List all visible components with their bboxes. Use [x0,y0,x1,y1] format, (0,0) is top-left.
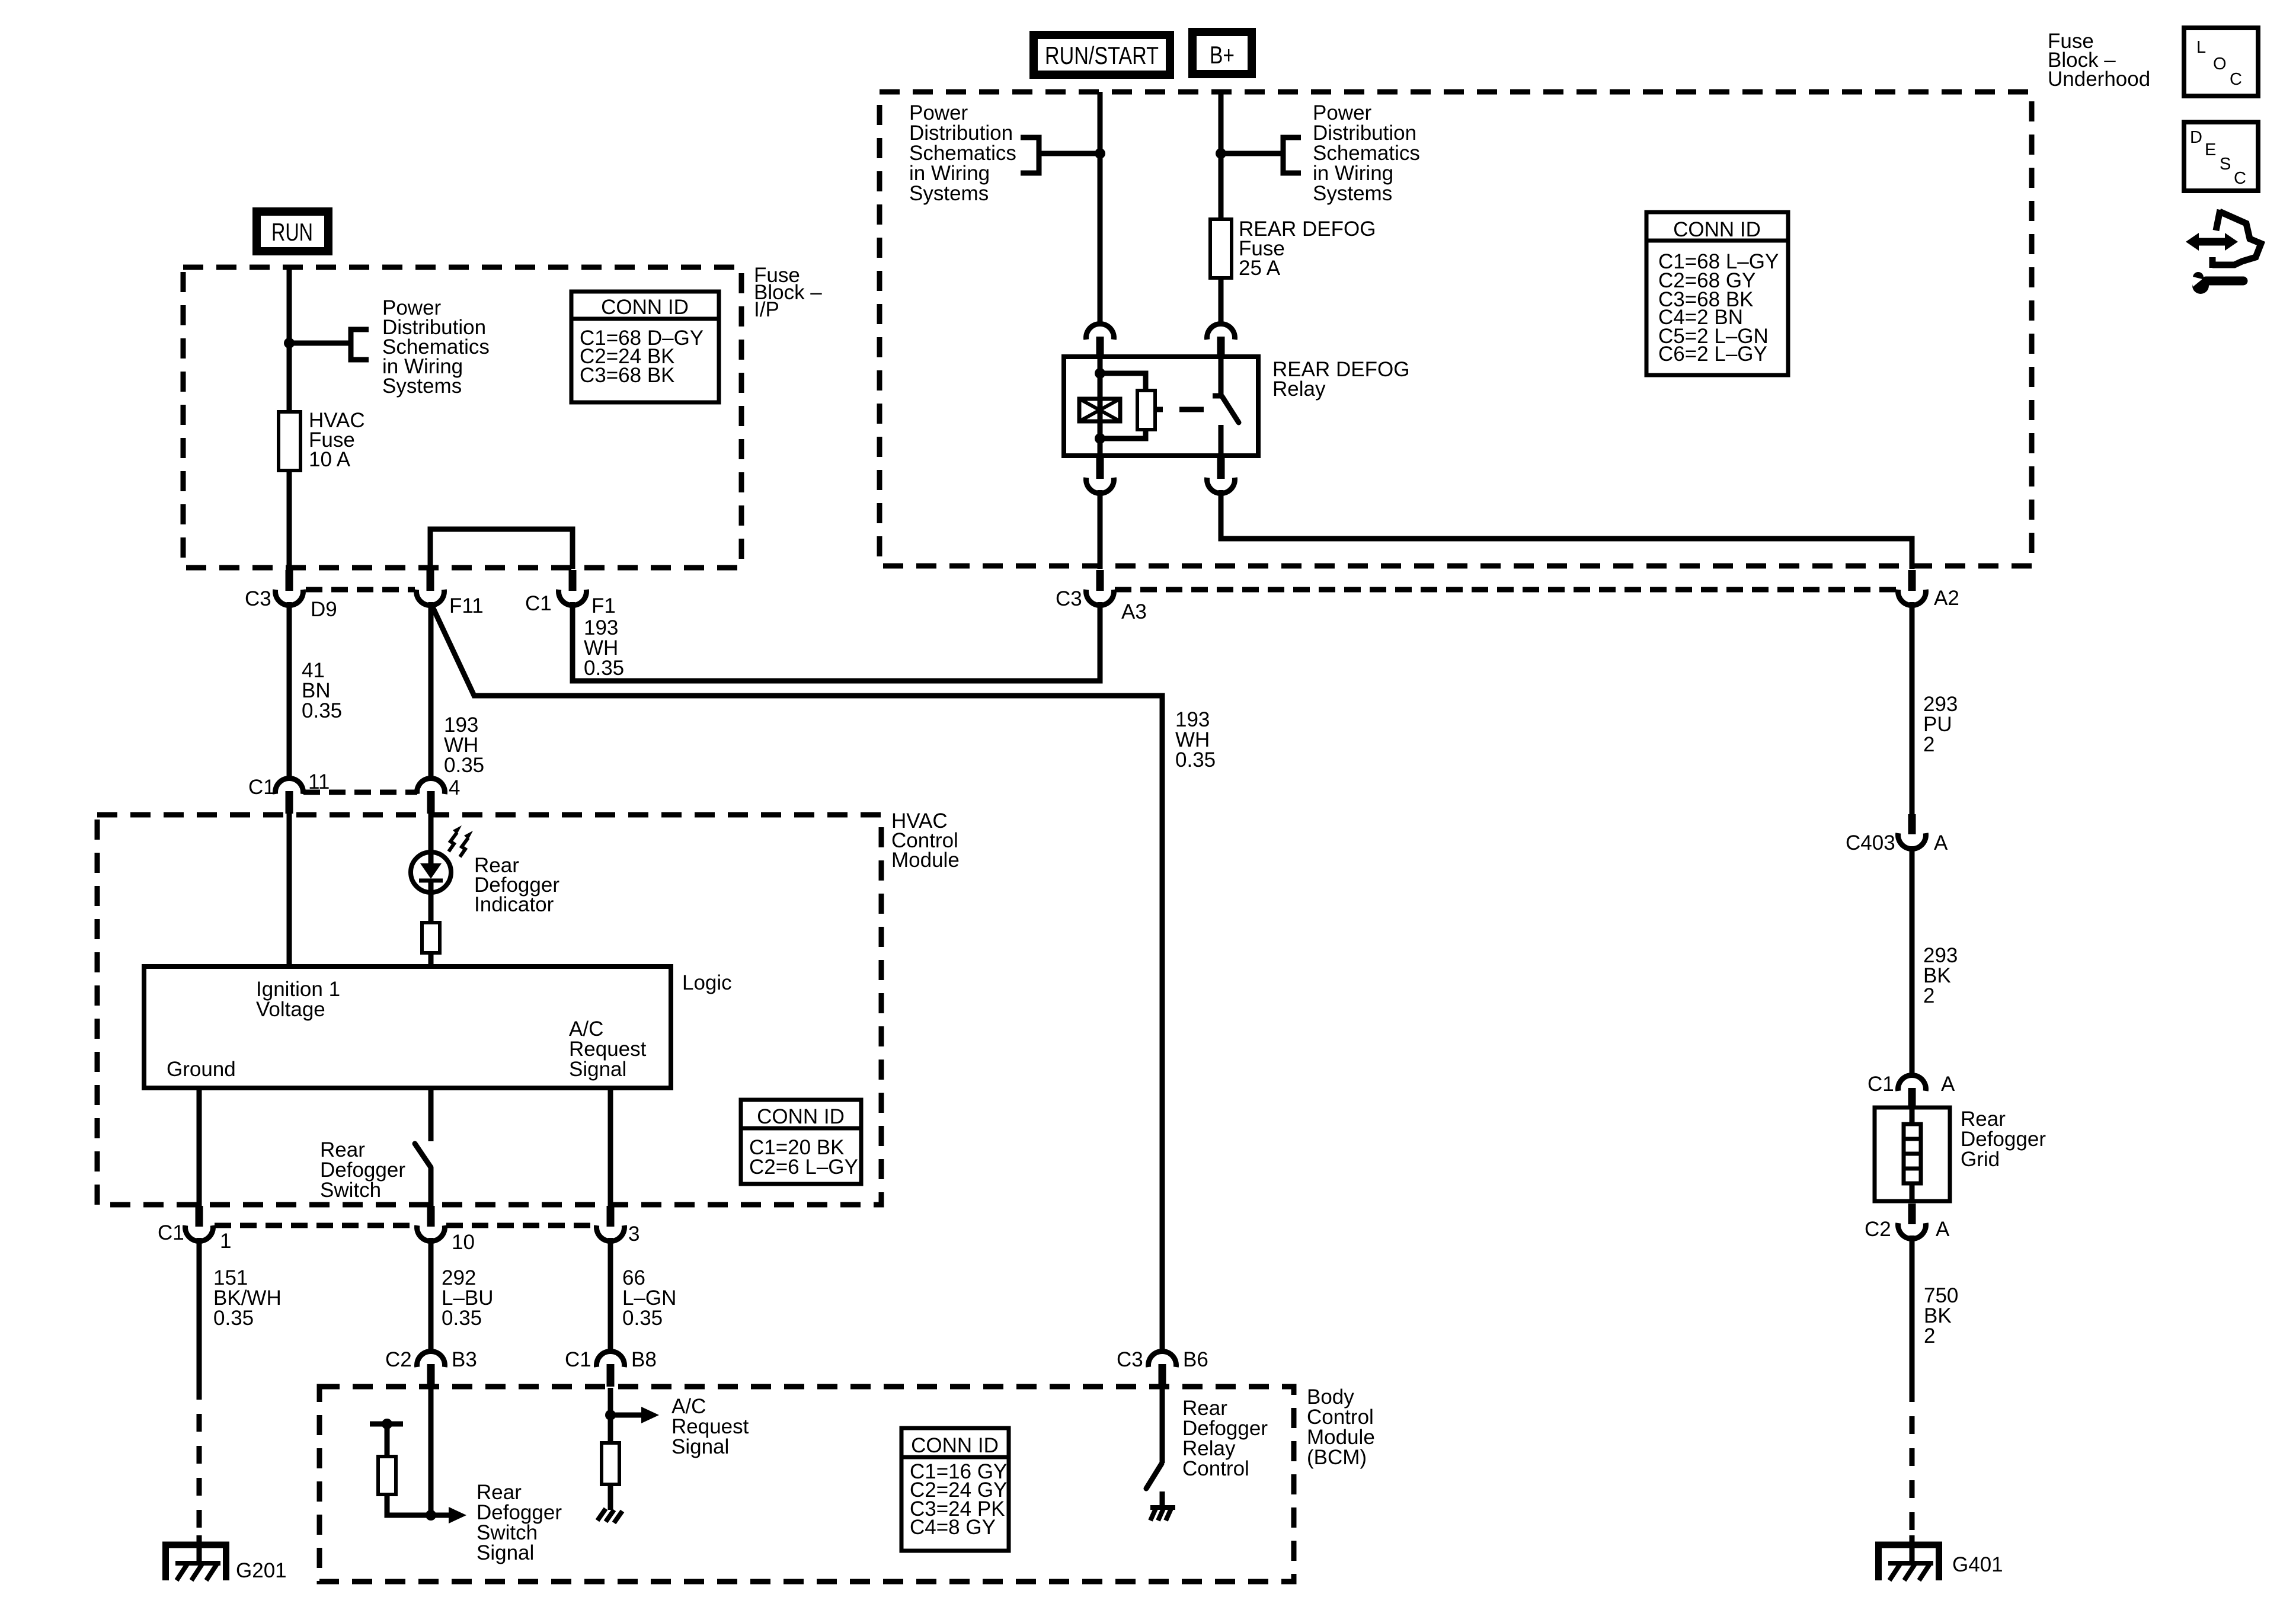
svg-text:E: E [2205,140,2216,159]
svg-text:C3: C3 [1117,1348,1143,1371]
wire LED to resistor [428,892,434,923]
connector relay switch bottom [1207,458,1235,494]
svg-text:3: 3 [628,1222,639,1246]
arrow A/C request signal [610,1407,659,1423]
svg-text:10 A: 10 A [309,448,351,471]
svg-text:RUN: RUN [271,218,313,246]
svg-text:Systems: Systems [1313,182,1392,205]
wire connector row dash 11-4 [303,790,417,795]
label wire 292 L-BU 0.35 [442,1266,494,1330]
wire B6 to relay control switch [1160,1388,1165,1463]
wire A/C request to pin 3 [608,1088,613,1207]
wire ground to pin 1 [197,1088,202,1207]
wire RUN to junction [287,266,292,343]
svg-text:C3: C3 [1056,587,1082,610]
label HVAC Fuse 10 A [309,409,365,471]
node switch signal junction [426,1510,436,1521]
fuse REAR DEFOG Fuse 25 A [1210,219,1232,278]
label wire 193 WH 0.35 (F1 branch) [584,616,624,680]
resistor relay suppression [1137,391,1155,430]
wire B3 to switch signal junction [428,1388,434,1515]
svg-text:RUN/START: RUN/START [1045,41,1159,69]
wire pin 1 dashed to G201 [197,1400,202,1535]
switch rear defogger relay control [1146,1464,1162,1489]
svg-text:Logic: Logic [682,971,732,994]
svg-text:F11: F11 [449,594,484,617]
svg-text:2: 2 [1923,984,1934,1007]
wire pin 3 to B8 [608,1238,613,1352]
wire B+ feed [1219,92,1224,219]
connector C1 F1 [558,570,586,606]
wire pin 11 to logic box [287,812,292,966]
wire C2 A to G401 [1910,1235,1915,1402]
wire relay switch to A2 [1221,490,1912,569]
wire grid element top [1910,1109,1915,1124]
label wire 293 PU 2 [1923,693,1958,756]
label Rear Defogger Switch [320,1138,405,1202]
wire relay actuation dashes [1155,407,1204,412]
connector C1 A (grid) [1898,1075,1926,1109]
svg-text:O: O [2213,55,2227,73]
svg-text:G401: G401 [1952,1553,2003,1576]
label wire 41 BN 0.35 [302,659,342,722]
table CONN ID HVAC [741,1100,861,1184]
node relay coil bottom junction [1095,433,1105,444]
ground chassis A/C [597,1509,622,1523]
svg-text:2: 2 [1924,1324,1935,1347]
svg-text:Systems: Systems [909,182,989,205]
svg-text:C: C [2230,70,2242,89]
resistor pull-up [378,1457,396,1494]
svg-text:C1: C1 [1868,1073,1894,1096]
wire junction to pull-down resistor [608,1415,613,1443]
svg-text:B8: B8 [631,1348,657,1371]
HVAC Control Module dashed box [97,815,881,1205]
svg-text:Signal: Signal [671,1435,729,1458]
svg-text:I/P: I/P [754,298,779,321]
label A/C Request Signal (BCM) [671,1395,749,1458]
svg-text:A: A [1936,1218,1950,1241]
bracket Power Distribution left [1021,137,1039,173]
keyword box RUN/START [1034,35,1170,75]
fuse block Underhood dashed box [880,92,2032,566]
arrow rear defogger switch signal [431,1507,466,1523]
svg-text:C403: C403 [1846,831,1895,854]
wire B8 to A/C junction [608,1388,613,1415]
connector relay coil top [1086,324,1114,358]
label Power Distribution Schematics in Wiring Systems (right) [1313,101,1420,205]
svg-text:Relay: Relay [1272,377,1326,401]
wire pull-up rail bar [370,1422,403,1427]
wire relay coil vertical [1098,357,1103,456]
body control module dashed box [319,1387,1294,1582]
label Rear Defogger Indicator [474,854,559,916]
svg-text:Voltage: Voltage [256,998,325,1021]
wire connector row dash A3-A2 [1115,587,1897,593]
svg-text:G201: G201 [236,1559,287,1582]
relay switch blade [1222,396,1239,422]
svg-text:0.35: 0.35 [444,754,484,777]
svg-text:B+: B+ [1210,41,1235,69]
wire C403 to C1 A [1910,847,1915,1076]
connector relay switch top [1207,324,1235,358]
label wire 193 WH 0.35 (BCM branch) [1175,708,1216,772]
svg-text:C1: C1 [248,776,275,799]
label Rear Defogger Grid [1961,1108,2046,1171]
wire pin 10 to B3 [428,1238,434,1352]
label wire 151 BK/WH 0.35 [213,1266,282,1330]
connector F11 [417,570,445,606]
wire relay switch stub [1219,357,1224,395]
wire rail to pull-up resistor [385,1424,390,1457]
wire junction to HVAC fuse [287,343,292,412]
wire bridge F11 to F1 inside I/P block [430,529,573,569]
svg-text:D9: D9 [311,598,337,621]
wire coil to resistor top [1100,373,1146,391]
connector C403 A [1898,814,1926,849]
wire pin 1 to ground G201 [197,1238,202,1400]
svg-text:D: D [2190,128,2202,147]
LED rear defogger indicator [411,852,451,892]
svg-text:Grid: Grid [1961,1148,2000,1171]
svg-text:Module: Module [891,849,960,872]
node A/C request junction [605,1410,616,1420]
label wire 293 BK 2 [1923,944,1958,1007]
svg-text:B6: B6 [1183,1348,1208,1371]
node pull-up rail junction [382,1419,392,1429]
wire fuse to relay [1219,278,1224,324]
label HVAC Control Module [891,809,960,872]
resistor A/C pull-down [602,1443,619,1484]
wire grid element bottom [1910,1183,1915,1202]
label Rear Defogger Switch Signal [477,1481,562,1564]
label Rear Defogger Relay Control [1182,1397,1268,1480]
relay coil winding box [1079,399,1120,421]
resistor LED dropping [422,923,440,953]
svg-text:A: A [1941,1073,1955,1096]
svg-text:B3: B3 [452,1348,477,1371]
svg-text:C2: C2 [1865,1218,1891,1241]
connector 10 [417,1206,445,1241]
svg-text:C1: C1 [158,1221,184,1244]
legend LOC box [2184,28,2258,96]
ground G201 [162,1535,229,1580]
LED light arrows [449,825,473,857]
wire pin 4 to LED [428,812,434,855]
node relay coil top junction [1095,368,1105,379]
svg-text:C: C [2234,169,2246,188]
rear defogger grid box [1875,1108,1950,1201]
label Body Control Module (BCM) [1307,1385,1375,1469]
switch rear defogger [415,1144,431,1167]
svg-text:Control: Control [1182,1457,1249,1480]
wire switch to pin 10 [428,1167,434,1207]
svg-text:C3: C3 [245,587,271,610]
svg-text:CONN ID: CONN ID [1673,218,1761,241]
svg-text:C6=2 L–GY: C6=2 L–GY [1658,343,1767,366]
svg-text:(BCM): (BCM) [1307,1446,1367,1469]
connector C1 11 [276,778,303,814]
svg-text:2: 2 [1923,733,1934,756]
legend service icon [2186,210,2261,294]
svg-text:0.35: 0.35 [584,657,624,680]
node junction on RUN feed [284,338,295,348]
label Fuse Block - Underhood [2048,30,2150,91]
svg-text:1: 1 [220,1230,231,1253]
label REAR DEFOG Relay [1272,358,1409,401]
svg-text:C1: C1 [525,592,552,615]
svg-text:4: 4 [449,776,460,799]
wire junction to left bracket [1041,151,1100,156]
table CONN ID BCM [901,1428,1009,1551]
label wire 66 L-GN 0.35 [622,1266,676,1330]
wire connector row dash 1-10 [215,1223,415,1228]
wire connector row dash 10-3 [446,1223,596,1228]
wire resistor to coil bottom [1100,430,1146,438]
node junction RUN/START feed [1095,148,1105,159]
wire resistor to logic box [428,953,434,966]
svg-text:25 A: 25 A [1239,257,1281,280]
svg-text:C4=8 GY: C4=8 GY [910,1516,996,1539]
connector 3 [597,1206,625,1241]
label A/C Request Signal (logic) [569,1017,647,1081]
svg-text:A2: A2 [1934,587,1959,610]
wire junction to bracket [289,341,350,346]
svg-text:S: S [2220,155,2231,174]
wire A2 to C403 [1910,602,1915,814]
svg-text:F1: F1 [591,594,616,617]
svg-text:0.35: 0.35 [213,1307,254,1330]
label Power Distribution Schematics in Wiring Systems (I/P) [382,296,490,398]
svg-text:CONN ID: CONN ID [911,1434,999,1457]
wire resistor to chassis ground [608,1484,613,1510]
connector C2 B3 [417,1351,445,1387]
wire F1 to A3 [573,602,1100,681]
relay REAR DEFOG Relay box [1064,357,1258,456]
svg-text:C3=68 BK: C3=68 BK [580,364,675,387]
svg-text:L: L [2196,38,2206,57]
wire fuse to connector D9 [287,470,292,569]
svg-text:C2=6 L–GY: C2=6 L–GY [749,1156,858,1179]
connector 4 [417,778,445,814]
table CONN ID Underhood [1646,212,1788,375]
grid heating element [1904,1124,1921,1183]
connector A2 [1898,570,1926,606]
label wire 193 WH 0.35 (F11 branch) [444,713,484,777]
wire relay coil to A3 [1098,490,1103,569]
connector C3 B6 [1149,1351,1176,1387]
svg-text:0.35: 0.35 [1175,748,1216,772]
wire relay switch lower stub [1219,425,1224,456]
relay switch pivot tick [1213,393,1223,399]
connector C1 1 [186,1206,213,1241]
table CONN ID I/P [571,292,719,402]
wire F11 diagonal to BCM feed [431,603,1162,1352]
connector relay coil bottom [1086,458,1114,494]
label Fuse Block - I/P [754,264,822,321]
svg-text:0.35: 0.35 [442,1307,482,1330]
ground chassis relay control [1150,1507,1175,1521]
wire D9 to pin 11 [287,602,292,779]
wire switch to chassis ground [1160,1491,1165,1507]
fuse block I/P dashed box [183,267,741,568]
logic box HVAC [144,966,671,1088]
svg-text:Signal: Signal [477,1541,534,1564]
label wire 750 BK 2 [1924,1284,1958,1347]
connector C3 A3 [1086,570,1114,606]
svg-text:C1: C1 [565,1348,591,1371]
wire logic to defogger switch [428,1088,434,1141]
wire F11 to pin 4 [428,602,434,779]
connector C2 A (grid bottom) [1898,1204,1926,1239]
node junction B+ feed [1216,148,1226,159]
ground G401 [1875,1535,1942,1580]
svg-text:CONN ID: CONN ID [601,296,689,319]
label Power Distribution Schematics in Wiring Systems (left) [909,101,1016,205]
svg-text:10: 10 [452,1231,475,1254]
keyword box B+ [1192,32,1252,74]
fuse HVAC Fuse 10 A [279,412,300,470]
svg-text:Ground: Ground [167,1058,236,1081]
svg-text:Systems: Systems [382,375,462,398]
wire RUN/START feed [1098,92,1103,324]
connector C1 B8 [597,1351,625,1387]
svg-text:Underhood: Underhood [2048,68,2150,91]
wire connector row dash C3-F11 [306,587,415,593]
wire dashed to G401 [1910,1402,1915,1535]
bracket Power Distribution I/P [351,329,369,360]
svg-text:0.35: 0.35 [302,699,342,722]
label Ignition 1 Voltage [256,978,340,1021]
wire junction to right bracket [1221,151,1283,156]
svg-text:A: A [1934,831,1948,854]
connector C3 D9 [276,570,303,606]
svg-text:Signal: Signal [569,1058,626,1081]
legend DESC box [2184,122,2258,191]
svg-text:CONN ID: CONN ID [757,1105,845,1128]
svg-text:A3: A3 [1121,600,1147,623]
label REAR DEFOG Fuse 25 A [1239,217,1376,280]
svg-text:Switch: Switch [320,1179,381,1202]
keyword box RUN [257,212,328,251]
svg-text:Indicator: Indicator [474,893,554,916]
svg-text:C2: C2 [385,1348,412,1371]
bracket Power Distribution right [1283,137,1301,173]
svg-text:0.35: 0.35 [622,1307,663,1330]
wire pull-up resistor to junction [387,1494,431,1515]
